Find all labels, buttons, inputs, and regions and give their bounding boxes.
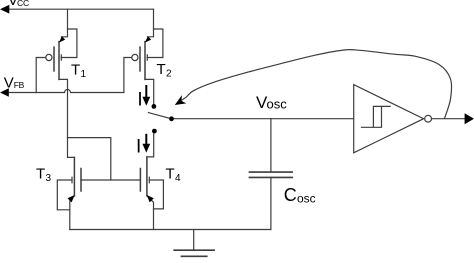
svg-text:T: T (166, 166, 175, 183)
svg-text:FB: FB (14, 80, 25, 90)
svg-text:3: 3 (46, 173, 52, 184)
svg-text:T: T (71, 61, 80, 78)
svg-text:I: I (137, 90, 142, 111)
svg-text:1: 1 (81, 69, 87, 80)
svg-text:T: T (36, 166, 45, 183)
svg-text:osc: osc (267, 97, 288, 112)
svg-text:osc: osc (297, 192, 316, 206)
svg-text:T: T (157, 61, 166, 78)
svg-text:CC: CC (17, 0, 29, 8)
svg-text:4: 4 (175, 173, 181, 184)
svg-text:V: V (4, 75, 14, 92)
svg-text:I: I (136, 136, 141, 157)
svg-text:2: 2 (166, 69, 172, 80)
svg-text:C: C (284, 185, 297, 205)
